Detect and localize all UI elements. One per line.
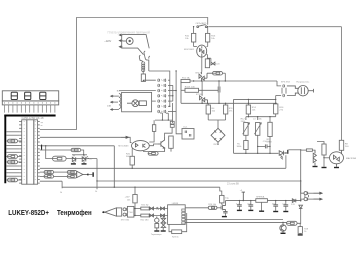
thermocouple sensor BT1 — [155, 217, 159, 231]
trimmer RP1 — [243, 123, 250, 136]
buzzer plate — [92, 172, 94, 177]
wire MCU pin to top rail — [40, 129, 77, 131]
protection diode D12 — [161, 214, 165, 217]
riser to heater pin2 — [275, 96, 277, 104]
resistor R2a — [205, 59, 209, 68]
resistor R16 — [274, 104, 278, 114]
svg-text:КРЕН5А: КРЕН5А — [256, 196, 265, 199]
HG1 pin-number ticks — [5, 102, 55, 103]
resistor R9 — [192, 33, 196, 42]
node at switch left — [193, 26, 194, 27]
capacitor C15 — [283, 205, 288, 206]
svg-text:24B: 24B — [107, 106, 111, 108]
output arrow 2 — [314, 198, 323, 200]
node +5 — [243, 200, 244, 201]
opamp out rail A y219.5 — [185, 219, 283, 221]
node D13 — [300, 200, 301, 201]
AC plug XP1 housing — [122, 35, 150, 55]
svg-text:2W10: 2W10 — [213, 144, 219, 146]
transistor VT3 — [72, 157, 75, 163]
wire vertical bus a (x169.8) — [169, 80, 171, 106]
wire branch to far vertical — [175, 71, 177, 112]
wire cluster to x300.7 — [288, 149, 300, 151]
node mid oval — [45, 145, 46, 146]
7-segment display module HG1 — [2, 91, 58, 105]
buzzer BQ1 — [77, 171, 87, 177]
protection diode D11 — [161, 207, 165, 210]
MCU U1 left pins — [19, 122, 22, 184]
node y103/x207.5 — [207, 103, 208, 104]
HG1 digit 3 — [40, 92, 46, 99]
wire bus to R2 to MCU — [6, 156, 7, 158]
AC plug XP1 socket circle — [122, 38, 133, 45]
ground VT3 — [71, 163, 76, 164]
node y81/x225.3 — [225, 80, 226, 81]
thyristor VS3 — [279, 151, 287, 160]
wire MCU pin to y181 — [40, 180, 62, 182]
power cord prong N — [144, 51, 150, 71]
resistor R6 (gate, oval) — [213, 71, 223, 75]
wire node into R7 — [301, 149, 307, 151]
wire R21 to opamp — [149, 208, 167, 210]
heater connector XP3/XS3 pin 1 — [283, 84, 285, 87]
wires R19 — [134, 187, 136, 215]
svg-text:D20: D20 — [216, 64, 221, 66]
wire R28 top — [299, 223, 301, 226]
wire bus to R1 to MCU — [6, 140, 7, 142]
ground R28 — [298, 234, 303, 235]
svg-text:27k: 27k — [279, 109, 283, 111]
svg-text:LUKEY-852D+: LUKEY-852D+ — [8, 210, 49, 217]
node y103/x202 — [201, 103, 202, 104]
ground RU2 — [161, 230, 166, 231]
svg-text:R26 10k: R26 10k — [208, 204, 217, 206]
node sense b — [257, 153, 258, 154]
buzzer drive oval pair B — [67, 170, 77, 173]
wire U6 cathode to R20 — [131, 149, 133, 157]
wire R16 top — [273, 103, 275, 105]
HG1 digit 1 — [11, 92, 17, 99]
node y181/x300.7 — [300, 180, 301, 181]
output connector XS5 pin2 — [304, 198, 308, 201]
diode D13 — [292, 199, 296, 203]
wires connector right pins to verticals — [168, 80, 176, 111]
buzzer node dot — [87, 174, 89, 176]
MCU U1 pin-number ticks — [24, 122, 36, 180]
protection diode D10 — [150, 214, 154, 217]
resistor R5 (left of bus) — [8, 178, 18, 182]
C12 leads — [238, 201, 240, 210]
svg-text:23 узла ВК: 23 узла ВК — [227, 183, 240, 186]
hot-air gun connector XP4/XS4 pin 2 — [158, 84, 160, 87]
wire fuse down leg — [180, 81, 182, 103]
node sense a — [245, 153, 246, 154]
hot-air gun connector XP4/XS4 pin 6 — [158, 105, 160, 108]
node C12 — [239, 200, 240, 201]
bridge rectifier D3 — [211, 128, 225, 142]
resistor R18 (mid) — [322, 144, 326, 155]
wire U3 bottom to triac Q1 — [201, 57, 203, 72]
feedback resistor R23 — [172, 230, 182, 234]
resistor R14 — [246, 105, 250, 114]
hot-air gun connector XP4/XS4 pin 4 — [158, 94, 160, 97]
VS3 polar cap plate — [287, 150, 288, 154]
resistor R11 — [224, 105, 228, 114]
resistor R3 (left of bus) — [8, 160, 18, 164]
node conn c1 — [175, 90, 176, 91]
svg-text:1k: 1k — [95, 191, 98, 193]
node pots c — [269, 116, 270, 117]
svg-text:10k: 10k — [212, 110, 216, 112]
wires pots to R13 — [246, 135, 258, 153]
ground HL2 — [82, 163, 87, 164]
wire fan emitter rail — [143, 151, 165, 153]
node iron a — [134, 208, 135, 209]
wire switch drops to R9/R10 — [194, 27, 208, 34]
node sense c — [269, 153, 270, 154]
wire mains live rail (top long) — [209, 26, 342, 28]
ground VT4 — [222, 216, 227, 217]
opamp out rail B y222.4 — [185, 221, 286, 223]
connector body rails — [282, 88, 286, 94]
node pots b — [257, 116, 258, 117]
wire sense drop x300.7 — [300, 150, 302, 202]
iron +24V resistor R19 — [133, 195, 137, 203]
resistor R28 — [298, 227, 302, 234]
diode D6 (indicator) — [211, 62, 215, 65]
wire into XS5 pin1 — [301, 181, 304, 193]
output connector XS5 pin1 — [304, 192, 308, 195]
oval resistor R21m mid — [53, 156, 67, 161]
transistor VT4 — [221, 201, 225, 212]
svg-text:MAC97A8: MAC97A8 — [346, 157, 357, 160]
hot-air gun connector XP4/XS4 pin 1 — [158, 79, 160, 82]
svg-text:1k: 1k — [60, 192, 63, 194]
node C10b — [269, 146, 270, 147]
svg-text:L4: L4 — [253, 119, 256, 121]
common bus wire (thick, vertical) — [4, 115, 6, 184]
wire R11 top — [225, 103, 227, 105]
wire +24V rail y187.2 — [62, 186, 220, 188]
MCU U1 right pins — [38, 122, 40, 184]
svg-text:R22 180: R22 180 — [141, 220, 150, 222]
node iron b — [134, 215, 135, 216]
node fan drv2 — [168, 119, 169, 120]
wire R28 gnd stem — [299, 232, 301, 235]
wire RV1 leads — [181, 89, 218, 91]
output arrow 1 — [314, 192, 323, 194]
wire fan tap to connector row3 — [119, 90, 156, 92]
buzzer drive oval pair B2 — [67, 175, 77, 178]
node R16 — [275, 103, 276, 104]
svg-text:Плата управления паяльной: Плата управления паяльной — [108, 31, 150, 35]
wire U3 to resistor R2a — [206, 55, 209, 59]
regulator U7 — [256, 199, 268, 203]
XS5 wires to arrows — [308, 193, 314, 199]
op-amp U4 — [168, 205, 186, 225]
node cluster — [285, 152, 286, 153]
ground R18 — [322, 167, 327, 168]
soldering iron body — [105, 208, 122, 216]
resistor R21 — [141, 207, 149, 210]
hot-air gun connector XP4/XS4 pin 5 — [158, 100, 160, 103]
ground C15 — [283, 211, 288, 212]
wire x62.1 drop — [61, 181, 63, 188]
svg-text:Тенрмофен: Тенрмофен — [57, 210, 92, 217]
capacitor C3 (small vertical tick) — [41, 145, 42, 151]
wires bus to MCU left pins — [6, 132, 19, 176]
wire Q2 top to y81 — [201, 81, 203, 93]
wire y181 left riser — [96, 159, 98, 190]
C13 leads — [250, 201, 252, 210]
feedback oval R27 — [287, 221, 298, 225]
wire opamp to R26 — [185, 207, 208, 209]
wire resistor R2a to node D6 — [207, 58, 211, 63]
optocoupler U3 — [197, 45, 207, 57]
wires connector to fan driver below — [155, 103, 173, 123]
wire iron bottom y215.5 — [134, 215, 141, 217]
resistor R7 (small box) — [306, 149, 312, 151]
buzzer drive oval pair A — [44, 170, 54, 173]
AC plug XP1 arrows — [119, 34, 122, 47]
diode mark D9a — [157, 207, 159, 210]
node LED cluster — [83, 154, 84, 155]
svg-text:360k: 360k — [237, 146, 243, 148]
wire MCU to R22m and LED cluster — [40, 150, 87, 157]
resistor R10 — [206, 33, 210, 42]
capacitor C11 — [223, 212, 227, 213]
fan motor M1 — [127, 100, 146, 107]
ground C13 — [248, 210, 253, 211]
iron connector XP2/XS2 pin1 — [123, 208, 126, 211]
iron connector XP2/XS2 pin2 — [123, 213, 126, 216]
ground VT5 — [281, 233, 286, 234]
varistor RV1 — [185, 88, 199, 92]
wire R26 to VT4 — [217, 207, 221, 209]
node R14 — [248, 99, 249, 100]
svg-text:Термопара: Термопара — [151, 234, 162, 236]
wire cluster drop — [285, 155, 287, 168]
+24 feed resistor R25 — [220, 195, 224, 203]
wire supply to XS5 pin2 — [301, 199, 304, 201]
fan winding taps — [114, 96, 119, 109]
+5V symbol — [242, 192, 245, 201]
zener VD5 — [299, 205, 303, 208]
wire pots top rail y116.7 — [246, 114, 276, 122]
resistor R20 — [130, 156, 134, 165]
wire R6 to drop — [222, 73, 225, 81]
node riser — [275, 99, 276, 100]
ground U7 — [261, 202, 263, 210]
svg-text:500k: 500k — [257, 119, 263, 121]
fan housing box — [122, 92, 152, 111]
power switch SA1 — [197, 25, 207, 28]
wire neutral y96 long — [234, 98, 276, 100]
wire buzzer link — [89, 174, 93, 176]
triac Q2 — [200, 93, 208, 103]
svg-text:10k: 10k — [252, 109, 256, 111]
node R14b — [248, 103, 249, 104]
opamp feed oval R26 — [208, 206, 217, 209]
svg-text:Вент: Вент — [117, 91, 122, 93]
wires R19a — [149, 120, 154, 142]
fuse FU1 — [181, 79, 190, 82]
wire y168 long rail — [40, 167, 286, 169]
capacitor C10 — [265, 144, 267, 148]
resistor R2 (left of bus) — [8, 155, 18, 159]
node C14 — [275, 200, 276, 201]
wire +24 into R25 — [220, 187, 222, 195]
wire R20 to y168 rail — [131, 165, 133, 168]
node C7 top — [218, 80, 219, 81]
svg-text:~220V: ~220V — [104, 40, 111, 43]
fuse FU2 — [141, 74, 145, 81]
wires ovals buzzer — [40, 172, 67, 176]
heater connector XP3/XS3 pin 2 — [283, 94, 285, 97]
resistor R17 — [268, 122, 272, 136]
capacitor block C5/C6 — [182, 129, 194, 140]
wire R7 to LED — [312, 150, 315, 153]
hot-air gun connector XP4/XS4 pin 3 — [158, 89, 160, 92]
heater element EK1 — [287, 86, 314, 96]
HG1 pins — [5, 105, 55, 113]
wire mains right drop — [341, 27, 343, 141]
svg-text:D13: D13 — [291, 204, 296, 206]
node y103/x219 — [218, 103, 219, 104]
connector pin id marks — [161, 80, 163, 112]
wire fan box to row5 — [152, 100, 156, 102]
node R20 — [132, 168, 133, 169]
HG1 digit 2 — [25, 92, 31, 99]
wire bus drop x114.3 — [113, 146, 115, 187]
node branch — [175, 70, 176, 71]
node y81/x193.6 — [193, 80, 194, 81]
varistor pair RU2 — [161, 217, 165, 231]
protection diode D9 — [150, 207, 154, 210]
resistor R24 (oval) — [148, 152, 158, 156]
svg-text:1k: 1k — [304, 231, 306, 233]
svg-text:R21 3Ω: R21 3Ω — [141, 205, 149, 207]
wire iron top y208.5 — [134, 208, 141, 210]
node R7 — [300, 149, 301, 150]
svg-text:Нагреватель: Нагреватель — [296, 82, 310, 84]
wire fuse FU2 down to connector — [143, 80, 155, 81]
C7 leads — [218, 81, 220, 103]
wire R22 to opamp — [149, 215, 167, 217]
node y81/x201.6 — [201, 80, 202, 81]
node +24/x114.3 — [114, 187, 115, 188]
svg-text:MOC3063: MOC3063 — [118, 145, 129, 147]
fan transformer winding — [119, 94, 121, 109]
wire R18 top bend — [317, 142, 324, 145]
ground C12 — [237, 210, 242, 211]
triac U5 MAC97A8 — [330, 150, 344, 167]
node conn a1 — [169, 106, 170, 107]
terminal pair X2 — [170, 121, 174, 127]
svg-text:10μ: 10μ — [225, 198, 229, 200]
triac Q1 — [199, 72, 213, 81]
node C10 — [257, 146, 258, 147]
MCU drive wire with arrow to MOC3063 — [40, 137, 132, 142]
resistor R22 — [141, 214, 149, 217]
wire conn to cap block — [176, 112, 182, 134]
common bus wire (thick, horizontal) — [4, 115, 55, 117]
bridge bottom stub — [217, 142, 219, 145]
wire triac gate link — [324, 157, 330, 159]
resistor R1 (left of bus) — [8, 139, 18, 143]
transistor VT2 — [157, 136, 164, 151]
transistor VT5 — [280, 222, 286, 232]
capacitor C13 — [248, 205, 253, 206]
oval resistor R22m — [71, 148, 81, 151]
wire coil to fuse — [142, 70, 144, 74]
wire bus to R5 to MCU — [6, 179, 7, 181]
capacitor C7 — [218, 87, 220, 93]
svg-text:27k: 27k — [229, 110, 233, 112]
wire C11 to ground — [224, 213, 226, 216]
MCU U1 body — [22, 120, 38, 184]
node y181/x97 — [96, 180, 97, 181]
svg-text:ТЭН: ТЭН — [128, 212, 133, 214]
svg-text:FU1 5A: FU1 5A — [182, 76, 190, 79]
svg-text:10k: 10k — [211, 38, 215, 40]
wire +5V supply rail y200.6 — [225, 200, 300, 202]
optocoupler LED D8 — [313, 150, 316, 166]
resistor R13 — [244, 141, 248, 150]
wire sense rail y153.3 — [234, 152, 279, 154]
wires R9/R10 to optocoupler U3 — [194, 42, 208, 47]
node pots a — [248, 116, 249, 117]
node VT5 — [282, 222, 283, 223]
node C15 — [285, 200, 286, 201]
wire mains neutral (long, y103.3) — [181, 102, 276, 104]
node triac gate — [323, 157, 324, 158]
svg-text:MOC3062: MOC3062 — [184, 49, 195, 51]
connector XS5 rails — [305, 195, 309, 197]
node C13 — [250, 200, 251, 201]
resistor R15 (triac gate, right) — [339, 140, 343, 150]
wire sense left drop x233.5 — [233, 99, 235, 153]
node conn b1 — [172, 95, 173, 96]
svg-text:240: 240 — [345, 146, 349, 148]
wire R18b bottom — [170, 148, 172, 151]
wire top rail from MCU area up and across — [77, 18, 208, 130]
arrow on drive wire — [121, 136, 129, 138]
node fan drv — [162, 119, 163, 120]
buzzer drive oval pair A2 — [44, 175, 54, 178]
wires R4/R11 to bridge — [208, 114, 225, 128]
wire bus to R3 to MCU — [6, 161, 7, 163]
wire live to heater pin1 — [277, 81, 281, 86]
wire R14 top to neutral — [247, 99, 249, 105]
wire gun sense rail y181 — [97, 180, 301, 182]
svg-text:10k: 10k — [185, 38, 189, 40]
capacitor C12 — [237, 205, 242, 206]
iron heater box — [127, 206, 133, 217]
svg-text:R23 1k: R23 1k — [172, 236, 180, 238]
node +24/x135 — [134, 187, 135, 188]
wires R23 — [169, 213, 187, 232]
ground C14 — [273, 211, 278, 212]
svg-text:10k: 10k — [127, 199, 131, 201]
MCU pin name marks — [41, 123, 43, 126]
wire R18 bottom to ground — [323, 155, 325, 167]
node R11 top — [225, 103, 226, 104]
hot-air gun connector XP4/XS4 pin 7 — [158, 110, 160, 113]
svg-text:XP3 XS3: XP3 XS3 — [281, 82, 291, 84]
fan 24V winding arrows — [111, 95, 114, 110]
node R16b — [275, 103, 276, 104]
